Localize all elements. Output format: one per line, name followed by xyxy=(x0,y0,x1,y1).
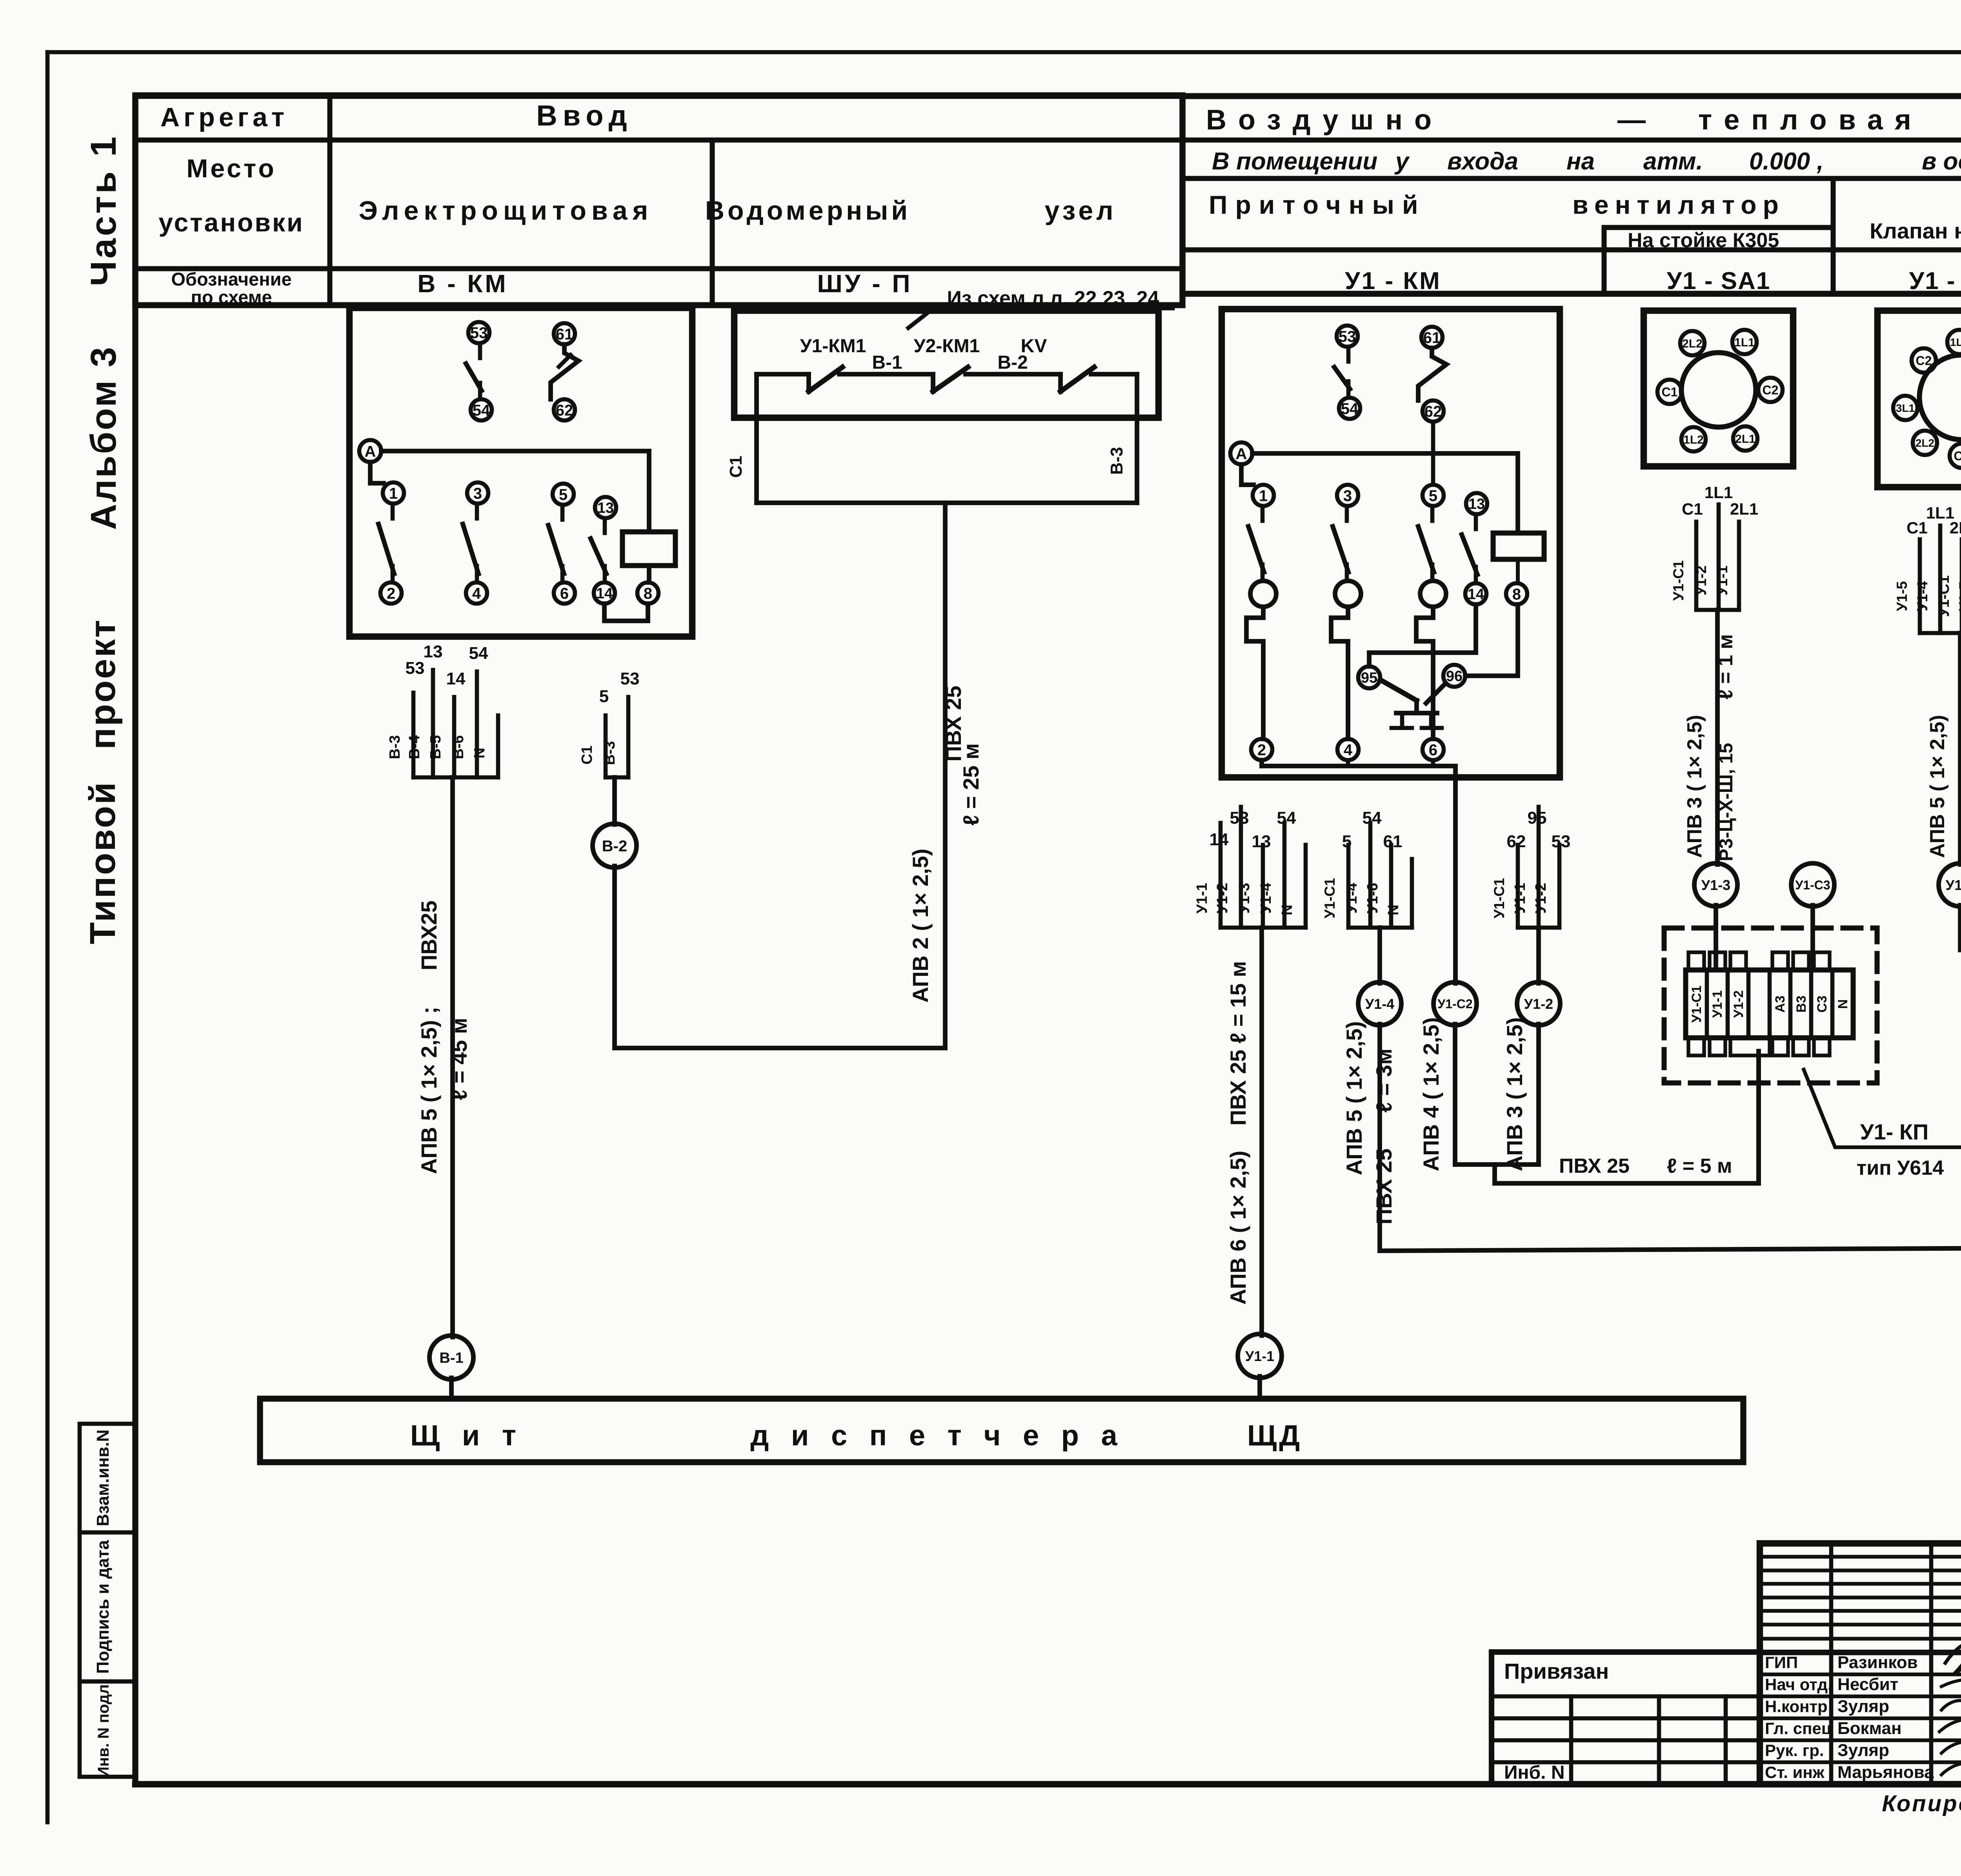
svg-text:ПВХ25: ПВХ25 xyxy=(417,901,441,970)
svg-text:У1-2: У1-2 xyxy=(1533,883,1549,914)
svg-text:62: 62 xyxy=(1507,832,1526,851)
svg-text:АПВ 6 ( 1× 2,5): АПВ 6 ( 1× 2,5) xyxy=(1226,1151,1250,1305)
wire N xyxy=(1304,845,1308,928)
svg-text:В-3: В-3 xyxy=(602,741,618,765)
margin box Подпись и дата xyxy=(80,1532,135,1681)
svg-text:В - КМ: В - КМ xyxy=(417,269,508,298)
wire 62 to pole 3 xyxy=(1431,422,1435,485)
svg-text:У1-С1: У1-С1 xyxy=(1936,575,1952,617)
svg-text:Зуляр: Зуляр xyxy=(1837,1741,1889,1760)
svg-text:2: 2 xyxy=(387,585,395,602)
svg-text:1L1: 1L1 xyxy=(1734,336,1755,349)
svg-text:6: 6 xyxy=(1429,741,1437,759)
SA2 terminal C1 xyxy=(1950,444,1961,468)
header table outline right part xyxy=(1182,96,1961,294)
svg-text:В-3: В-3 xyxy=(387,735,403,759)
svg-text:2: 2 xyxy=(1257,741,1266,759)
svg-text:Типовой проект: Типовой проект xyxy=(83,619,123,944)
svg-text:Агрегат: Агрегат xyxy=(160,102,288,132)
svg-text:Щ и т: Щ и т xyxy=(410,1419,523,1452)
wire from A to coil of В-КМ xyxy=(381,451,649,532)
switch block У1-SA1 outline xyxy=(1644,311,1793,466)
У1-КП top tabs xyxy=(1688,952,1704,970)
cable marker circle У1-4 xyxy=(1358,982,1401,1025)
svg-text:13: 13 xyxy=(1468,496,1485,513)
svg-text:АПВ 3 ( 1× 2,5): АПВ 3 ( 1× 2,5) xyxy=(1683,715,1706,858)
wire 1L1 from SA2 xyxy=(1938,526,1943,633)
svg-text:ПВХ 25 ℓ = 15 м: ПВХ 25 ℓ = 15 м xyxy=(1226,961,1250,1126)
terminal 96 of У1-КМ xyxy=(1443,665,1465,687)
title verticals xyxy=(1829,1543,1834,1784)
wire В-1 to ЩД xyxy=(449,1378,454,1399)
svg-text:атм.: атм. xyxy=(1643,148,1703,175)
wire У1-С2 from У1-КМ xyxy=(1453,777,1458,983)
svg-text:У1 - SA2: У1 - SA2 xyxy=(1909,267,1961,295)
bus below ШУ-П xyxy=(757,500,1137,505)
terminal strip У1-КП xyxy=(1686,970,1853,1038)
cable marker circle У1-2 xyxy=(1517,982,1560,1025)
svg-text:С1: С1 xyxy=(579,746,595,765)
svg-text:53: 53 xyxy=(1339,328,1356,345)
svg-text:5: 5 xyxy=(599,687,609,706)
svg-text:N: N xyxy=(1385,904,1402,915)
svg-text:У1-5: У1-5 xyxy=(1894,581,1910,611)
svg-text:У1-4: У1-4 xyxy=(1344,883,1360,914)
svg-text:Водомерный: Водомерный xyxy=(705,196,911,226)
svg-text:ℓ = 25 м: ℓ = 25 м xyxy=(959,743,983,826)
svg-text:2L1: 2L1 xyxy=(1950,519,1961,537)
svg-text:У1 - КМ: У1 - КМ xyxy=(1345,267,1441,295)
cable marker circle В-2 xyxy=(593,824,637,868)
wire from A to coil of У1-КМ xyxy=(1252,453,1518,533)
bundle bus У1-С1..У1-2 xyxy=(1518,926,1559,930)
svg-text:Ст. инж: Ст. инж xyxy=(1765,1763,1825,1781)
svg-text:1: 1 xyxy=(389,485,398,502)
svg-text:У1-2: У1-2 xyxy=(1524,996,1553,1012)
svg-text:у: у xyxy=(1394,148,1410,175)
svg-text:ПВХ 25: ПВХ 25 xyxy=(1372,1148,1396,1225)
svg-text:Клапан на трубопроводе калориф: Клапан на трубопроводе калорифере xyxy=(1870,218,1961,243)
wire У1-С1 (5) xyxy=(1346,845,1351,928)
svg-text:У1-6: У1-6 xyxy=(1364,883,1381,914)
cable АПВ 3 riser to У1-2 xyxy=(1536,928,1541,983)
svg-text:53: 53 xyxy=(1552,832,1571,851)
wire У1-2 (53) xyxy=(1557,845,1562,928)
frame top line xyxy=(135,93,1961,99)
svg-text:У1-С3: У1-С3 xyxy=(1795,878,1830,892)
wire С1 drop from ШУ-П xyxy=(754,374,759,503)
svg-text:У1-1: У1-1 xyxy=(1512,883,1528,914)
svg-text:ℓ = 1 м: ℓ = 1 м xyxy=(1714,634,1737,700)
wire У1-1 (14) xyxy=(1219,823,1223,928)
svg-text:Подпись и дата: Подпись и дата xyxy=(93,1540,113,1674)
contactor block В-КМ outline xyxy=(349,308,692,637)
svg-text:4: 4 xyxy=(1344,741,1353,759)
svg-text:АПВ 5 ( 1× 2,5): АПВ 5 ( 1× 2,5) xyxy=(1926,715,1949,858)
main contact pole 1-2 of В-КМ xyxy=(383,482,404,504)
svg-text:A: A xyxy=(1236,445,1247,462)
wire В-3 drop from ШУ-П xyxy=(1135,374,1139,503)
terminal A of В-КМ xyxy=(359,440,381,462)
svg-text:У2-КМ1: У2-КМ1 xyxy=(914,336,980,357)
svg-text:61: 61 xyxy=(1383,832,1403,851)
У1-КП bottom tabs xyxy=(1688,1038,1704,1055)
svg-text:95: 95 xyxy=(1361,670,1377,686)
svg-text:2L1: 2L1 xyxy=(1735,433,1755,446)
svg-text:5: 5 xyxy=(1429,487,1437,504)
svg-text:62: 62 xyxy=(556,402,573,419)
main contact pole 3-4 of В-КМ xyxy=(467,482,488,504)
bottom bus of У1-КМ xyxy=(1262,760,1455,777)
svg-text:на: на xyxy=(1566,148,1595,175)
cable marker circle В-1 xyxy=(429,1336,473,1379)
svg-text:АПВ 4 ( 1× 2,5): АПВ 4 ( 1× 2,5) xyxy=(1419,1017,1443,1172)
auxiliary contact 61-62 of В-КМ xyxy=(554,323,575,344)
wire С1 from SA1 xyxy=(1694,522,1699,610)
svg-text:С3: С3 xyxy=(1815,995,1830,1012)
cable marker circle У1-С3 xyxy=(1791,863,1834,906)
SA2 terminal 1L1 xyxy=(1947,330,1961,354)
svg-text:2L2: 2L2 xyxy=(1682,337,1703,350)
svg-text:Взам.инв.N: Взам.инв.N xyxy=(93,1430,113,1527)
svg-text:Несбит: Несбит xyxy=(1837,1675,1898,1694)
svg-text:—: — xyxy=(1617,104,1646,136)
svg-text:тип У614: тип У614 xyxy=(1857,1157,1944,1179)
svg-text:Приточный: Приточный xyxy=(1209,190,1426,219)
svg-text:3: 3 xyxy=(1343,487,1352,504)
wire У1-1 to ЩД xyxy=(1257,1376,1262,1399)
wire В-5 (14) xyxy=(452,697,457,777)
wire 2L1 from SA2 xyxy=(1960,539,1961,633)
svg-text:тепловая: тепловая xyxy=(1698,104,1923,136)
cable marker circle У1-1 xyxy=(1238,1334,1282,1378)
auxiliary contact 13-14 of В-КМ xyxy=(595,497,616,518)
SA1 terminal C1 xyxy=(1657,380,1682,404)
svg-text:53: 53 xyxy=(406,659,425,678)
svg-text:Бокман: Бокман xyxy=(1837,1719,1902,1738)
svg-text:C1: C1 xyxy=(1662,385,1678,399)
svg-text:С1: С1 xyxy=(1906,519,1928,537)
svg-text:ШУ - П: ШУ - П xyxy=(817,269,913,298)
breaker contact У1-КМ1 / В-1 xyxy=(806,374,811,391)
bundle bus У1-С1..N xyxy=(1348,926,1412,930)
svg-text:ЩД: ЩД xyxy=(1247,1419,1302,1452)
svg-text:ℓ = 3м: ℓ = 3м xyxy=(1372,1048,1396,1113)
main contact pole 5-6 of В-КМ xyxy=(553,484,574,505)
panel ШУ-П outline xyxy=(734,311,1159,418)
margin box Инв.N подл. xyxy=(80,1681,135,1777)
pole 3 contact and heater of У1-КМ xyxy=(1423,485,1444,506)
svg-text:Альбом 3: Альбом 3 xyxy=(84,346,124,530)
wire У1-1 (95) xyxy=(1537,807,1541,928)
wire У1-4 (54) xyxy=(1282,823,1287,928)
svg-text:У1-3: У1-3 xyxy=(1236,883,1253,914)
wire A to pole 1 xyxy=(1241,464,1253,485)
svg-text:13: 13 xyxy=(1252,832,1271,851)
bundle bus below В-КМ xyxy=(413,775,498,780)
SA1 terminal C2 xyxy=(1758,378,1783,402)
svg-text:Копировал:: Копировал: xyxy=(1882,1791,1961,1816)
svg-text:ℓ = 45 м: ℓ = 45 м xyxy=(447,1018,471,1100)
signatures squiggles xyxy=(1945,1643,1961,1682)
svg-text:На стойке К305: На стойке К305 xyxy=(1628,229,1779,252)
svg-text:У1 - SA1: У1 - SA1 xyxy=(1667,267,1771,295)
svg-text:Гл. спец: Гл. спец xyxy=(1765,1719,1832,1738)
svg-text:14: 14 xyxy=(446,669,466,688)
svg-text:Привязан: Привязан xyxy=(1504,1659,1609,1683)
svg-text:8: 8 xyxy=(644,585,652,602)
svg-text:В-3: В-3 xyxy=(1107,447,1126,475)
svg-text:У1-С1: У1-С1 xyxy=(1322,878,1338,918)
cabinet Щит диспетчера ЩД xyxy=(260,1399,1743,1462)
SA1 terminal 1L2 xyxy=(1681,427,1706,451)
svg-text:13: 13 xyxy=(597,500,614,517)
svg-text:вентилятор: вентилятор xyxy=(1572,190,1785,219)
wire N xyxy=(496,715,500,777)
wire 14 to 95 xyxy=(1369,604,1476,666)
svg-text:АПВ 5 ( 1× 2,5) ;: АПВ 5 ( 1× 2,5) ; xyxy=(417,1007,441,1174)
svg-text:У1-1: У1-1 xyxy=(1710,990,1725,1018)
junction bus У1-С2/У1-2 to У1-КП xyxy=(1455,1162,1539,1167)
auxiliary contact 53-54 of В-КМ xyxy=(468,322,489,343)
svg-text:В-4: В-4 xyxy=(406,735,423,759)
svg-text:ℓ = 5 м: ℓ = 5 м xyxy=(1667,1155,1732,1177)
cable below У1-2 xyxy=(1536,1024,1541,1165)
auxiliary contact 61-62 of У1-КМ xyxy=(1421,327,1443,348)
cable АПВ 2 riser from ШУ-П xyxy=(943,503,948,522)
contactor block У1-КМ outline xyxy=(1222,309,1560,777)
svg-text:АПВ 2 ( 1× 2,5): АПВ 2 ( 1× 2,5) xyxy=(908,849,933,1003)
coil of В-КМ xyxy=(622,532,675,566)
svg-text:В помещении: В помещении xyxy=(1212,148,1377,175)
svg-text:У1-1: У1-1 xyxy=(1714,566,1730,596)
svg-text:54: 54 xyxy=(1341,400,1359,417)
SA1 terminal 2L2 xyxy=(1680,331,1705,355)
svg-text:2L1: 2L1 xyxy=(1730,500,1758,518)
wire В-3 (53) xyxy=(411,693,416,777)
svg-text:13: 13 xyxy=(424,642,443,661)
svg-text:61: 61 xyxy=(1423,329,1441,346)
svg-text:C2: C2 xyxy=(1763,383,1779,397)
wire N xyxy=(1410,859,1414,928)
svg-text:96: 96 xyxy=(1446,668,1463,685)
svg-text:53: 53 xyxy=(620,669,640,688)
terminal 8 of В-КМ xyxy=(647,566,651,582)
svg-text:3: 3 xyxy=(473,485,482,502)
svg-text:3L1: 3L1 xyxy=(1896,402,1915,414)
svg-text:14: 14 xyxy=(596,586,613,602)
svg-text:54: 54 xyxy=(469,644,488,663)
svg-text:N: N xyxy=(1835,999,1850,1009)
svg-text:установки: установки xyxy=(158,208,304,237)
svg-text:N: N xyxy=(471,748,488,758)
wire 96 to coil bottom xyxy=(1465,604,1518,676)
svg-text:В-5: В-5 xyxy=(427,735,444,759)
svg-text:У1-1: У1-1 xyxy=(1194,883,1210,914)
wire В-3 (53) xyxy=(626,697,631,777)
wire 2L1 from SA1 xyxy=(1737,522,1741,610)
svg-text:С1: С1 xyxy=(726,456,746,478)
svg-text:1: 1 xyxy=(1259,487,1268,504)
svg-text:6: 6 xyxy=(560,585,569,602)
wire 1L1 from SA1 xyxy=(1717,504,1721,610)
svg-text:Инб. N: Инб. N xyxy=(1504,1762,1564,1783)
wire У1-5 to У1-СК xyxy=(1960,905,1961,971)
bundle bus below SA2 xyxy=(1920,631,1961,635)
wire У1-6 (61) xyxy=(1389,845,1393,928)
wire У1-3 (13) xyxy=(1261,845,1265,928)
svg-text:A: A xyxy=(365,443,376,460)
svg-text:Электрощитовая: Электрощитовая xyxy=(359,196,653,226)
bus inside ШУ-П xyxy=(757,372,809,377)
wire A to pole 1 xyxy=(370,462,384,483)
SA1 terminal 1L1 xyxy=(1732,330,1757,354)
svg-text:в осях: в осях xyxy=(1922,148,1961,175)
title signature rows xyxy=(1760,1672,1961,1676)
svg-text:62: 62 xyxy=(1424,403,1442,420)
left title section Привязан xyxy=(1492,1652,1760,1784)
wire bus to В-2 xyxy=(612,777,617,824)
svg-text:N: N xyxy=(1279,904,1295,915)
svg-text:У1-4: У1-4 xyxy=(1914,581,1930,611)
svg-text:5: 5 xyxy=(559,486,568,503)
wire У1-2 (53) xyxy=(1239,807,1243,928)
svg-text:У1-4: У1-4 xyxy=(1258,883,1274,914)
svg-text:Марьянова: Марьянова xyxy=(1837,1763,1934,1782)
svg-text:Р3-Ц-Х-Ш, 15: Р3-Ц-Х-Ш, 15 xyxy=(1716,743,1737,861)
wire У1-С3 to У1-КП xyxy=(1810,905,1815,970)
svg-text:В-6: В-6 xyxy=(450,735,467,759)
svg-text:У1-1: У1-1 xyxy=(1245,1348,1274,1364)
terminal A of У1-КМ xyxy=(1230,442,1252,464)
svg-text:В-1: В-1 xyxy=(872,352,902,373)
svg-text:8: 8 xyxy=(1512,586,1521,603)
terminal 8 of У1-КМ xyxy=(1506,583,1527,604)
rotary switch body SA2 xyxy=(1919,355,1961,440)
pole 2 contact and heater of У1-КМ xyxy=(1337,485,1358,506)
svg-text:У1- КП: У1- КП xyxy=(1860,1119,1929,1144)
thermal release contact xyxy=(1380,680,1417,701)
frame left xyxy=(132,96,138,1784)
У1-КП bottom drop wire xyxy=(1756,1055,1761,1183)
svg-text:У1-2: У1-2 xyxy=(1214,883,1231,914)
sheet outer border left xyxy=(45,52,50,1822)
svg-text:ПВХ 25: ПВХ 25 xyxy=(1559,1155,1630,1177)
svg-text:Место: Место xyxy=(186,154,276,183)
svg-text:В-1: В-1 xyxy=(439,1350,463,1367)
svg-text:У1-С1: У1-С1 xyxy=(1689,986,1704,1023)
cable АПВ 3 riser to У1-3 xyxy=(1715,610,1720,864)
svg-text:54: 54 xyxy=(473,402,490,419)
svg-text:У1-4: У1-4 xyxy=(1365,996,1394,1012)
svg-text:61: 61 xyxy=(556,326,573,343)
svg-text:У1-3: У1-3 xyxy=(1701,877,1730,893)
svg-text:95: 95 xyxy=(1528,808,1547,828)
svg-text:Нач отд.: Нач отд. xyxy=(1765,1675,1832,1694)
cable АПВ 5 riser to У1-5 xyxy=(1958,633,1961,864)
svg-text:Зуляр: Зуляр xyxy=(1837,1697,1889,1716)
cable marker circle У1-С2 xyxy=(1433,982,1477,1025)
switch block У1-SA2 outline xyxy=(1877,311,1961,487)
breaker contact KV xyxy=(1058,374,1063,391)
svg-text:Ввод: Ввод xyxy=(536,99,632,132)
pole 1 contact and heater of У1-КМ xyxy=(1253,485,1274,506)
cable marker circle У1-3 xyxy=(1694,863,1737,906)
svg-text:В3: В3 xyxy=(1794,995,1809,1012)
sheet outer border top xyxy=(47,50,1961,55)
svg-text:АПВ 3 ( 1× 2,5): АПВ 3 ( 1× 2,5) xyxy=(1502,1017,1527,1172)
bundle bus У1-1..N xyxy=(1221,926,1306,930)
svg-text:Н.контр: Н.контр xyxy=(1765,1697,1828,1716)
svg-text:У1-С1: У1-С1 xyxy=(1491,878,1507,918)
svg-text:14: 14 xyxy=(1210,830,1229,849)
wire С1 (5) xyxy=(604,715,608,777)
title block outline xyxy=(1760,1543,1961,1784)
svg-text:У1-5: У1-5 xyxy=(1946,877,1961,893)
svg-text:входа: входа xyxy=(1447,148,1518,175)
cable marker circle У1-5 xyxy=(1939,863,1961,906)
svg-text:С1: С1 xyxy=(1682,500,1703,518)
terminal 95 of У1-КМ xyxy=(1358,666,1380,688)
wire У1-С1 (62) xyxy=(1516,845,1520,928)
svg-text:Часть 1: Часть 1 xyxy=(84,134,124,286)
SA2 terminal 2L2 xyxy=(1913,431,1937,455)
svg-text:0.000 ,: 0.000 , xyxy=(1749,148,1824,175)
dashed enclosure У1-КП xyxy=(1664,928,1877,1083)
svg-text:4: 4 xyxy=(472,585,481,602)
wire С1 from SA2 xyxy=(1918,539,1922,633)
auxiliary contact 53-54 of У1-КМ xyxy=(1337,326,1358,347)
svg-text:Воздушно: Воздушно xyxy=(1206,104,1443,136)
cable АПВ 5 riser to У1-4 xyxy=(1377,928,1382,983)
svg-text:2L2: 2L2 xyxy=(1916,437,1934,449)
margin box Взам.инв.N xyxy=(80,1424,135,1532)
header table outline left part xyxy=(135,95,1182,305)
У1-КП leader and label xyxy=(1804,1070,1961,1147)
svg-text:У1-2: У1-2 xyxy=(1731,990,1746,1018)
svg-text:1L1: 1L1 xyxy=(1950,336,1961,348)
svg-text:KV: KV xyxy=(1021,336,1047,357)
svg-text:У1-КМ1: У1-КМ1 xyxy=(800,336,866,357)
svg-text:В-2: В-2 xyxy=(602,837,627,855)
svg-text:А3: А3 xyxy=(1773,995,1788,1012)
svg-text:ℓ = 3 м: ℓ = 3 м xyxy=(1957,640,1961,706)
cable АПВ 6 riser to У1-1 xyxy=(1259,928,1264,1336)
svg-text:У1-С2: У1-С2 xyxy=(1437,997,1472,1011)
svg-text:54: 54 xyxy=(1277,808,1296,828)
svg-text:Инв. N подл.: Инв. N подл. xyxy=(95,1680,112,1778)
svg-text:Р3-Ц-Х-Ш, 20: Р3-Ц-Х-Ш, 20 xyxy=(1959,743,1961,861)
frame bottom xyxy=(135,1781,1961,1788)
bundle bus С1/В-3 xyxy=(606,775,628,780)
svg-text:53: 53 xyxy=(1230,808,1249,828)
svg-text:Разинков: Разинков xyxy=(1837,1653,1918,1672)
breaker contact У2-КМ1 / В-2 xyxy=(931,374,935,391)
svg-text:C1: C1 xyxy=(1954,449,1961,463)
svg-text:14: 14 xyxy=(1468,586,1484,603)
svg-text:54: 54 xyxy=(1363,808,1382,828)
svg-text:5: 5 xyxy=(1342,832,1352,851)
wire У1-3 to У1-КП xyxy=(1714,905,1718,970)
auxiliary contact 13-14 of У1-КМ xyxy=(1466,493,1487,514)
cable АПВ 4 below У1-С2 xyxy=(1453,1024,1457,1165)
svg-text:узел: узел xyxy=(1045,196,1117,226)
wire У1-4 (54) xyxy=(1368,823,1373,928)
rotary switch body SA1 xyxy=(1681,353,1756,427)
SA2 terminal C2 xyxy=(1912,348,1936,373)
svg-text:53: 53 xyxy=(470,324,488,342)
svg-text:по схеме: по схеме xyxy=(191,287,272,308)
